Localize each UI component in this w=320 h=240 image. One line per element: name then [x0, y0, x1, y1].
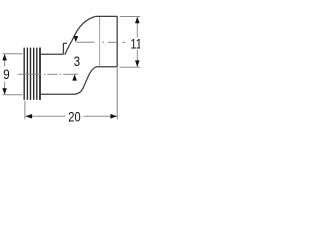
svg-text:20: 20: [68, 110, 80, 126]
dim 9: extension lines: [3, 54, 23, 95]
pipe centerline (dash-dot): [18, 73, 78, 75]
socket centerline (dash-dot): [76, 41, 125, 43]
dim 3: up arrow on pipe axis: [72, 74, 77, 80]
S-curve top wall: [65, 16, 96, 54]
part outline: [41, 16, 118, 94]
socket bottom edge: [96, 66, 117, 68]
pipe bottom line: [41, 93, 76, 95]
dim 11: extension lines: [120, 17, 140, 68]
svg-text:3: 3: [74, 54, 80, 70]
dim 20: dimension line: [26, 115, 117, 117]
socket right edge: [116, 16, 118, 66]
sealing fins (gasket lips): [24, 48, 40, 99]
svg-text:11: 11: [130, 35, 140, 51]
dim 9: dimension line: [4, 54, 6, 94]
dim 20: arrows: [26, 114, 118, 119]
socket top edge: [96, 15, 117, 17]
dim 11: arrows: [135, 17, 140, 67]
dim 9: arrows: [2, 54, 7, 94]
dim 3: down arrow on socket axis: [74, 36, 79, 42]
socket depth line: [99, 17, 101, 66]
S-curve bottom wall: [75, 67, 97, 94]
dim 20: extension lines: [25, 68, 117, 120]
dim 11: dimension line: [136, 17, 138, 67]
collar step: [63, 43, 67, 54]
pipe top line: [41, 53, 64, 55]
svg-text:9: 9: [3, 67, 10, 83]
